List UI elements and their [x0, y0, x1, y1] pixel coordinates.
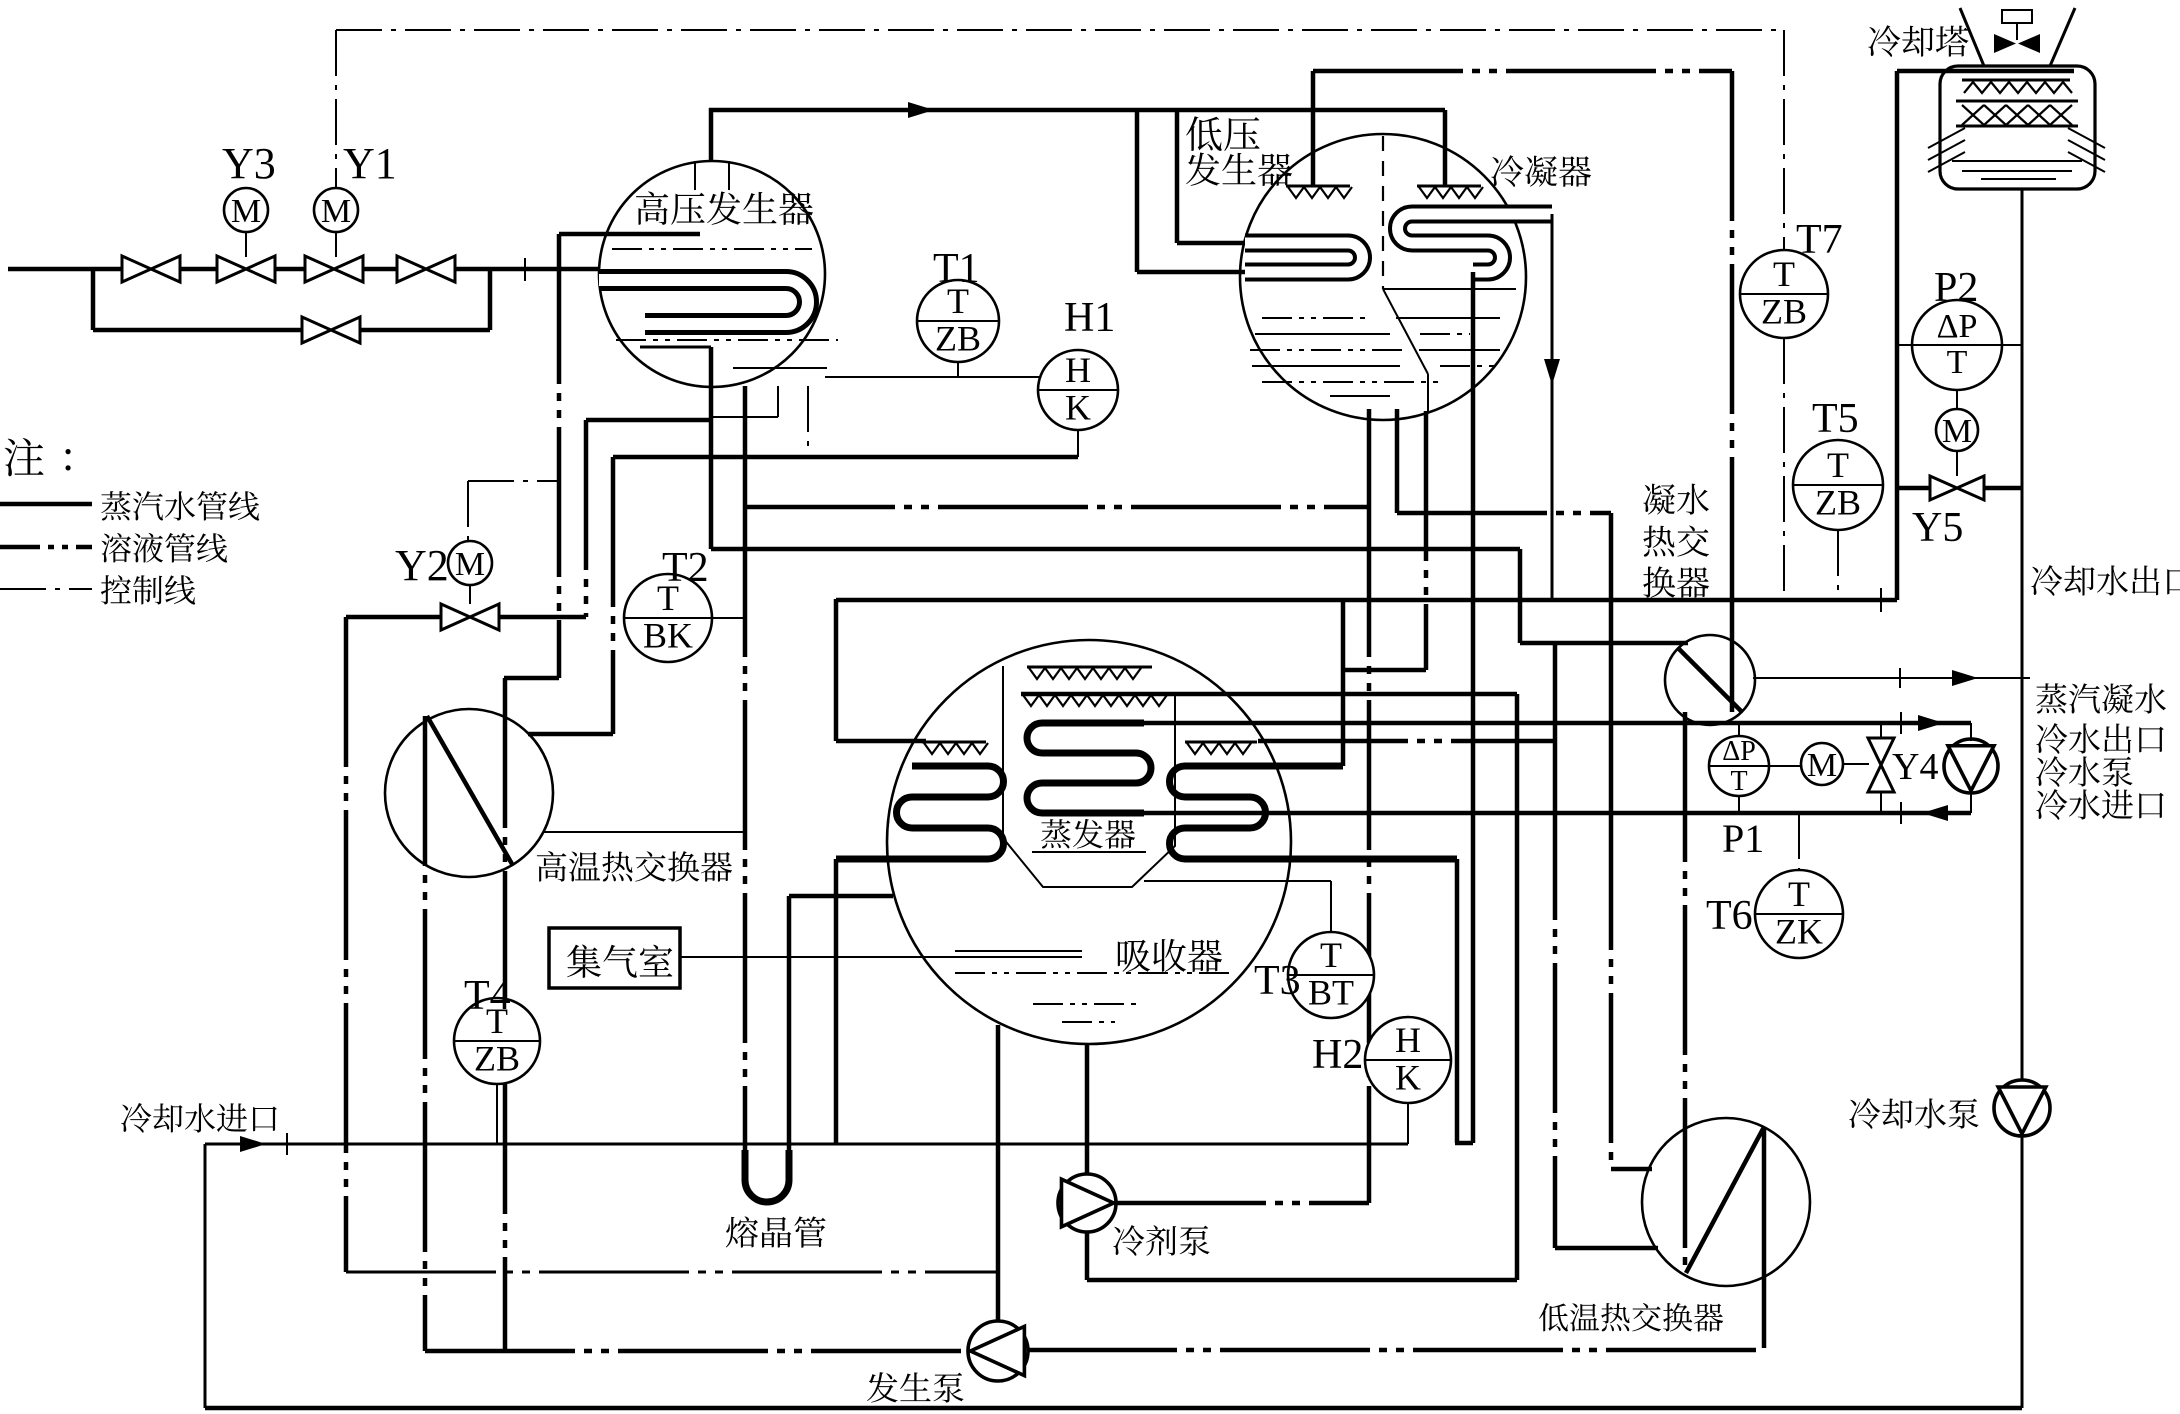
LP coil outlet riser x1177 — [1175, 110, 1180, 243]
svg-text:T: T — [1320, 935, 1342, 975]
vessel: high temp heat exchanger 高温热交换器 — [385, 709, 553, 877]
solution jog to HT exchanger — [504, 676, 559, 681]
svg-text:Y4: Y4 — [1892, 746, 1938, 788]
coil: LP generator heating coil — [1245, 243, 1363, 272]
coil: evaporator chilled water — [1027, 723, 1151, 813]
instrument T4 — [454, 998, 540, 1084]
svg-text:T: T — [1947, 344, 1968, 381]
vessel: condensate heat exchanger 凝水热交换器 — [1665, 635, 1755, 725]
control line: top run to T7 — [336, 29, 1784, 31]
absorber level line 1 — [955, 950, 1082, 952]
label 高温热交换器 — [537, 851, 732, 882]
pump: 发生泵 generator pump — [996, 1025, 1001, 1321]
solution feed from top x1732 — [1730, 71, 1735, 560]
steam condensate line y678 — [1753, 677, 2030, 679]
legend solution line sample — [0, 545, 92, 550]
legend text 控制线 — [101, 575, 195, 604]
drop x1520 to condensate exchanger — [1518, 549, 1523, 643]
solution drop x1611 to LT exchanger — [1609, 513, 1614, 800]
instrument T1 — [917, 280, 999, 362]
svg-text:M: M — [231, 193, 261, 230]
instrument T7 — [1740, 250, 1828, 338]
tick below T5 — [1880, 588, 1882, 612]
HP generator liquid level dash line — [612, 248, 812, 250]
valve Y2 body — [441, 604, 499, 630]
tower side louvers left — [1928, 128, 1965, 148]
control line T7 down — [1783, 30, 1785, 250]
cooling water outlet riser x1897 — [1895, 71, 1900, 600]
solution feed to LP gen spray x1313 — [1311, 71, 1316, 186]
tower fan blades — [1994, 34, 2040, 53]
svg-text:ZK: ZK — [1775, 912, 1823, 952]
instrument T2 temperature — [624, 574, 712, 662]
chilled water loop right side — [1970, 723, 1972, 741]
coil: HP generator heating coil — [599, 280, 808, 324]
svg-text:H1: H1 — [1064, 295, 1115, 341]
valve bypass — [302, 317, 360, 343]
solution spray feed y738 right section — [1258, 739, 1555, 744]
pump: 冷却水泵 cooling water pump — [1994, 1080, 2050, 1136]
svg-text:M: M — [1942, 413, 1972, 450]
svg-text:ZB: ZB — [474, 1039, 520, 1079]
svg-text:H2: H2 — [1312, 1032, 1363, 1078]
label 冷却水泵 — [1849, 1098, 1978, 1129]
motor actuator of Y4 — [1801, 743, 1843, 785]
pump: 冷剂泵 refrigerant pump — [1085, 1044, 1090, 1174]
absorber right spray — [1185, 741, 1257, 744]
svg-text:Y3: Y3 — [222, 139, 276, 188]
solution line left drop — [557, 234, 562, 678]
vessel: low temp heat exchanger 低温热交换器 — [1642, 1118, 1810, 1286]
diagonal of condensate exchanger — [1679, 649, 1741, 711]
solution line: left main drop x346 — [344, 617, 349, 1272]
vessel: evaporator/absorber circle — [887, 640, 1291, 1044]
evaporator spray row 2 bar — [1021, 692, 1517, 697]
bottom return line y1408 — [205, 1406, 2022, 1411]
svg-text:T: T — [1827, 445, 1849, 485]
instrument tap line H1/T1 — [825, 376, 1040, 378]
absorber left spray — [922, 741, 986, 744]
svg-text:T: T — [1773, 254, 1795, 294]
stub into LT exchanger y1248 — [1555, 1246, 1658, 1251]
gas chamber box 集气室 — [549, 928, 680, 988]
valve Y4 vertical — [1880, 723, 1882, 813]
legend title 注: — [5, 438, 44, 476]
outlet notch under HP generator — [777, 386, 779, 417]
condenser spray — [1417, 185, 1481, 188]
pipe: steam vapor out of HP generator — [709, 108, 714, 161]
condenser level lines — [1396, 317, 1500, 319]
melt crystal tube 熔晶管 U-bend — [745, 1150, 789, 1202]
tower top funnel slants — [1960, 8, 1984, 66]
label 发生泵 — [867, 1372, 964, 1403]
label 吸收器 — [1118, 939, 1222, 972]
label 高压发生器 — [636, 191, 813, 225]
legend solid steam/water line sample — [0, 502, 92, 507]
svg-text:M: M — [455, 546, 485, 583]
svg-text:ΔP: ΔP — [1937, 308, 1978, 345]
tower side louvers right — [2068, 128, 2105, 148]
link P1 to M — [1769, 765, 1801, 767]
refrigerant pump riser x1369 — [1367, 507, 1372, 1203]
tower fill XX pattern — [1962, 105, 2072, 125]
condenser coil outlet drop x1473 — [1471, 272, 1476, 1143]
spray feed drop x836 — [834, 599, 839, 741]
underline of 蒸发器 — [1032, 851, 1146, 853]
tower fan motor — [2002, 10, 2032, 23]
chilled water out y723 — [1144, 721, 1971, 726]
HP coil outlet stub — [640, 346, 711, 349]
svg-text:M: M — [1807, 747, 1837, 784]
generator pump suction y1351 — [425, 1349, 969, 1354]
label 低温热交换器 — [1539, 1303, 1723, 1332]
label 发生器 — [1186, 153, 1292, 186]
label 蒸汽凝水 — [2036, 683, 2166, 713]
vessel: LP generator / condenser circle — [1240, 134, 1526, 420]
solution drop x613 to HT exchanger — [611, 457, 616, 734]
tower fill top line — [1956, 100, 2078, 103]
svg-text:T7: T7 — [1796, 217, 1843, 263]
riser x1457 to absorber coil — [1455, 859, 1460, 1143]
tower basin level lines — [1952, 160, 2082, 162]
pipe: thick run y457 to H1 — [613, 455, 1078, 460]
evaporator spray row 1 — [1027, 666, 1152, 669]
steam feed drop x1137 into LP coil — [1135, 110, 1140, 272]
legend text 蒸汽水管线 — [101, 491, 259, 521]
condensate tray diagonal — [1383, 289, 1428, 374]
instrument T3 — [1288, 932, 1374, 1018]
label 蒸发器 — [1041, 819, 1135, 849]
svg-text:T1: T1 — [933, 246, 980, 292]
svg-text:T4: T4 — [464, 973, 511, 1019]
label 凝水 — [1643, 484, 1709, 515]
label 熔晶管 — [726, 1216, 826, 1247]
svg-text:T: T — [1730, 766, 1747, 797]
diagonal of HT heat exchanger — [427, 716, 512, 864]
internal dashed divider — [1382, 136, 1384, 289]
svg-text:T3: T3 — [1254, 958, 1301, 1004]
condensate tray right drop — [1427, 374, 1429, 411]
absorber level line 3 — [1033, 1003, 1136, 1005]
riser x1343 to y600 — [1341, 600, 1346, 766]
svg-text:H: H — [1065, 350, 1091, 390]
coil: absorber right cooling — [1170, 766, 1458, 859]
arrow: vapor flow right — [908, 102, 934, 118]
solution out bottom x1685 — [1683, 712, 1688, 1273]
valve Y1 body — [305, 256, 363, 282]
pump: 冷水泵 chilled water pump — [1944, 739, 1998, 793]
diagonal of LT heat exchanger — [1686, 1127, 1764, 1273]
label 冷凝器 — [1491, 155, 1591, 187]
coil: absorber left cooling — [836, 766, 1003, 859]
evaporator tray outline — [1003, 666, 1175, 887]
riser x836 absorber cooling feed — [834, 859, 839, 1144]
control line to T6 — [1798, 813, 1800, 870]
vessel: high pressure generator 高压发生器 — [599, 161, 825, 387]
generator pump discharge y1350 — [1027, 1348, 1764, 1353]
solution line x745 down to crystal tube — [743, 507, 748, 1158]
refrigerant jog y670 — [1343, 668, 1426, 673]
valve Y5 — [1897, 486, 1930, 491]
svg-text:Y5: Y5 — [1912, 505, 1963, 551]
T2 tap line — [712, 617, 745, 619]
solution run y507 to LP generator — [745, 505, 1369, 510]
tower outlet pipe down to cooling pump — [2021, 189, 2024, 1080]
pipe up from crystal tube x789 — [787, 896, 792, 1152]
pipe: HP generator outlet down — [709, 347, 714, 549]
tick marks chilled lines — [1900, 712, 1902, 734]
svg-text:T5: T5 — [1812, 396, 1859, 442]
labels chilled water — [2036, 723, 2163, 754]
instrument P1 differential pressure — [1709, 736, 1769, 796]
cooling water main y600 — [836, 598, 1897, 603]
line from gas chamber to absorber — [680, 956, 1082, 958]
refrigerant drop condenser x1452 — [1424, 411, 1429, 670]
tower fill bottom line — [1956, 125, 2078, 128]
cooling water drop x1552 with arrow — [1551, 214, 1554, 600]
instrument P2 — [1912, 300, 2002, 390]
solution drop x1555 to LT exchanger — [1553, 643, 1558, 770]
solution line top y71 — [1313, 69, 1732, 74]
pipe: vapor to condenser spray x1445 — [1443, 110, 1448, 186]
arrow chilled out — [1918, 715, 1944, 731]
nozzle neck on HP generator — [694, 161, 696, 190]
link M to Y4 — [1843, 763, 1869, 765]
tick: battery limit on steam main — [524, 258, 526, 281]
pipe x1764 from LT exchanger down — [1762, 1127, 1767, 1348]
svg-text:ΔP: ΔP — [1722, 736, 1756, 767]
solution line y896 into absorber — [789, 894, 893, 899]
P2 tap lines — [1897, 344, 1912, 346]
LP gen level lines — [1262, 317, 1372, 319]
tower water inlet y71 — [1897, 69, 2074, 74]
solution line through valve Y2 — [346, 615, 443, 620]
legend control line sample — [0, 588, 92, 590]
svg-text:P2: P2 — [1934, 265, 1978, 311]
P2 to M stem — [1956, 390, 1958, 409]
svg-text:T2: T2 — [662, 545, 709, 591]
motor actuator Y3 — [245, 232, 247, 257]
solution drop LP gen x1428 — [1395, 409, 1400, 513]
svg-text:ZB: ZB — [1815, 483, 1861, 523]
T3 tap lines — [1330, 881, 1332, 932]
solution stub y734 — [528, 732, 613, 737]
H2 stem to cooling line — [1407, 1104, 1409, 1144]
svg-text:K: K — [1065, 388, 1091, 428]
instrument H1 — [1038, 350, 1118, 430]
svg-text:T: T — [1788, 874, 1810, 914]
label 冷剂泵 — [1113, 1225, 1209, 1256]
label 冷却水进口 — [121, 1103, 276, 1133]
pipe through HT exchanger left x425 — [423, 716, 428, 1351]
P1 stems — [1738, 723, 1740, 736]
label 冷却水出口 — [2031, 565, 2180, 596]
coil: condenser cooling coil — [1398, 214, 1553, 272]
solution line y420 from generator — [586, 418, 711, 423]
stub into LT exchanger y1169 — [1611, 1167, 1652, 1172]
solution drop LP gen x1369 — [1367, 409, 1372, 507]
svg-text:BK: BK — [643, 616, 693, 656]
arrow condensate out — [1952, 670, 1978, 686]
pipe: bypass loop — [91, 269, 96, 330]
svg-text:H: H — [1395, 1020, 1421, 1060]
tick cooling inlet — [286, 1133, 288, 1155]
evaporator spray row 2 zigzag — [1023, 695, 1167, 706]
svg-text:P1: P1 — [1722, 816, 1764, 861]
svg-text:M: M — [321, 193, 351, 230]
svg-text:Y1: Y1 — [343, 139, 397, 188]
vessel: cooling tower 冷却塔 — [1940, 66, 2095, 189]
strong solution y549 from HP generator — [711, 547, 1520, 552]
refrigerant pump lower run y1280 — [1087, 1278, 1517, 1283]
control line from Y1 to top — [335, 30, 337, 187]
valve Y3 body — [217, 256, 275, 282]
svg-text:K: K — [1395, 1058, 1421, 1098]
svg-text::: : — [62, 431, 74, 480]
cooling water left drop — [204, 1144, 207, 1408]
absorber level line 4 — [1062, 1021, 1115, 1023]
cooling water inlet line y1144 — [205, 1143, 1408, 1146]
H1 bottom stem — [1077, 430, 1079, 457]
svg-text:ZB: ZB — [935, 319, 981, 359]
HP generator level line 2 — [616, 339, 838, 341]
control line generator to y457 — [807, 386, 809, 457]
motor actuator Y2 — [469, 540, 471, 604]
svg-text:BT: BT — [1308, 973, 1354, 1013]
run y643 into condensate exchanger — [1520, 641, 1688, 646]
solution drop x586 — [584, 420, 589, 617]
solution drop from HP gen x745 — [743, 386, 748, 507]
stub y766 to absorber coil — [1255, 764, 1343, 769]
condensate tray top line — [1383, 288, 1516, 290]
T1 stem — [957, 362, 959, 377]
legend text 溶液管线 — [101, 533, 227, 563]
pipe through HT exchanger right x505 — [503, 678, 508, 1351]
pipe: steam supply main — [8, 267, 122, 272]
label 冷却塔 — [1868, 25, 1968, 57]
label 低压 — [1186, 116, 1259, 151]
motor actuator Y1 — [335, 232, 337, 257]
U-bend y1143 — [1455, 1141, 1473, 1146]
motor actuator Y5 — [1936, 409, 1978, 451]
spray feed y737 into absorber — [836, 739, 926, 744]
T4 stem — [496, 1084, 498, 1144]
control line T5 down — [1837, 530, 1839, 600]
instrument H2 — [1365, 1017, 1451, 1103]
label 换器 — [1643, 566, 1709, 598]
tap line from HT exchanger — [543, 831, 745, 833]
svg-text:ZB: ZB — [1761, 292, 1807, 332]
label 集气室 — [567, 945, 672, 978]
control line to Y2 — [467, 481, 469, 540]
arrow down on x1552 — [1544, 359, 1560, 385]
HP generator internal line — [733, 367, 827, 369]
solution line: bottom run y1272 to generator pump — [346, 1271, 996, 1274]
svg-text:Y2: Y2 — [395, 541, 449, 590]
arrow chilled in — [1922, 805, 1948, 821]
instrument T6 — [1755, 870, 1843, 958]
arrow cooling inlet — [240, 1136, 266, 1152]
LP generator spray — [1286, 185, 1350, 188]
chilled water in y813 — [1144, 811, 1971, 816]
tick on condensate line — [1899, 668, 1901, 688]
valve V1 inlet — [122, 256, 180, 282]
refrigerant pump discharge y1203 — [1116, 1201, 1369, 1206]
label 热交 — [1643, 525, 1709, 556]
tower spray bar — [1962, 79, 2070, 82]
riser x1517 to evaporator spray — [1515, 694, 1520, 1280]
svg-text:T6: T6 — [1706, 893, 1753, 939]
instrument T5 — [1793, 440, 1883, 530]
solution run y513 right — [1397, 511, 1611, 516]
solution line into HP generator top 溶液 — [559, 232, 700, 237]
valve V2 — [397, 256, 455, 282]
absorber level line 2 — [955, 972, 1234, 974]
